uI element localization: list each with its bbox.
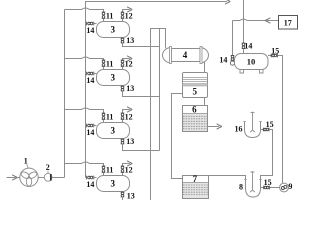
wire: vessel bottom to valve 13 (unit 2): [122, 85, 124, 88]
valve 12 (unit 2): [121, 60, 125, 67]
wire: valve 12 into vessel 3 (unit 1): [122, 19, 124, 22]
heat exchanger 4: [163, 47, 209, 64]
vessel 10: [235, 54, 269, 70]
svg-text:3: 3: [111, 73, 116, 83]
wire: vessel bottom to valve 13 (unit 1): [122, 37, 124, 40]
blower 1: [20, 168, 38, 186]
wire: feed to blower 1: [17, 177, 20, 179]
wire: valve 12 into vessel 3 (unit 4): [122, 173, 124, 176]
wire: feed inlet: [7, 177, 16, 179]
wire: down to valve 14 at vessel 10 left: [232, 21, 234, 56]
stirred tank 8: [244, 171, 262, 197]
vent arrow (unit 2): [127, 56, 132, 61]
svg-text:13: 13: [127, 191, 135, 200]
svg-text:13: 13: [126, 137, 134, 146]
tank 17: [279, 16, 298, 30]
wire: valve 13 drain (unit 4): [122, 197, 124, 200]
pump 9: [280, 183, 289, 192]
svg-text:5: 5: [192, 86, 197, 96]
svg-text:14: 14: [86, 26, 94, 35]
svg-text:11: 11: [106, 11, 114, 20]
valve 15 (tank 8): [264, 186, 270, 190]
wire: filter 2 to trunk A: [52, 177, 65, 179]
valve 15 (vessel 10): [271, 54, 277, 58]
valve 12 (unit 3): [121, 113, 125, 120]
svg-text:12: 12: [125, 11, 133, 20]
svg-text:4: 4: [183, 50, 188, 60]
wire: vent from valve 12 (unit 1): [123, 10, 130, 13]
valve 11 (unit 4): [102, 166, 106, 173]
wire: vent from valve 12 (unit 4): [123, 164, 130, 167]
arrow toward vessel 10 feed: [265, 18, 270, 23]
svg-text:13: 13: [126, 84, 134, 93]
wire: valve 11 into vessel 3 (unit 4): [103, 173, 105, 176]
wire: valve 14 into vessel 10 top: [243, 49, 245, 54]
wire: vessel 10 to valve 15: [268, 55, 271, 57]
wire: valve 12 into vessel 3 (unit 2): [122, 67, 124, 70]
wire: trunk B through valve 14 into vessel (unit 1): [86, 23, 97, 25]
wire: valve 11 into vessel 3 (unit 1): [103, 19, 105, 22]
filter 2: [44, 173, 52, 181]
vessel 3 (unit 1): [97, 22, 130, 38]
wire: exchanger 4 to cooler 5: [204, 62, 206, 73]
wire: valve 13 to trunk C (unit 2): [123, 91, 160, 97]
wire: header from trunk C splitting down-left and to exchanger 4: [151, 29, 166, 201]
separator 6: [183, 106, 208, 132]
vessel 3 (unit 2): [97, 70, 130, 86]
valve 14 (trunk D): [242, 43, 246, 49]
svg-text:3: 3: [111, 25, 116, 35]
vent arrow (unit 4): [127, 161, 132, 166]
svg-text:14: 14: [86, 76, 94, 85]
valve 13 (unit 1): [121, 38, 125, 43]
svg-text:3: 3: [111, 126, 116, 136]
separator 7: [183, 176, 209, 199]
product arrow from 6: [217, 124, 222, 129]
svg-text:1: 1: [24, 157, 28, 166]
svg-text:9: 9: [288, 182, 292, 191]
svg-text:15: 15: [264, 178, 272, 187]
vessel 3 (unit 4): [97, 176, 130, 192]
wire: tank 16 to valve 15: [261, 129, 264, 131]
svg-text:14: 14: [244, 42, 252, 51]
cooler 5: [183, 73, 208, 98]
svg-text:12: 12: [125, 112, 133, 121]
wire: valve 11 into vessel 3 (unit 3): [103, 120, 105, 123]
wire: branch from trunk A to valve 11 (unit 3), hops over trunk B: [65, 108, 104, 113]
svg-text:7: 7: [193, 174, 198, 184]
wire: from tank 17, hops over trunk D: [233, 19, 279, 20]
valve 13 (unit 4): [121, 192, 125, 197]
valve 11 (unit 3): [102, 113, 106, 120]
wire: vessel bottom to valve 13 (unit 3): [122, 138, 124, 141]
wire: trunk D (recycle line from top): [243, 0, 245, 43]
vent arrow at top: [225, 0, 230, 4]
valve 13 (unit 3): [121, 139, 125, 144]
svg-text:11: 11: [106, 165, 114, 174]
svg-text:14: 14: [86, 180, 94, 189]
svg-text:13: 13: [126, 36, 134, 45]
svg-text:6: 6: [192, 104, 197, 114]
valve 13 (unit 2): [121, 86, 125, 91]
wire: trunk B / top vent header: [86, 2, 228, 178]
injector circle at vessel 10 inlet: [230, 61, 234, 65]
vent arrow (unit 3): [127, 107, 132, 112]
wire: trunk A (feed riser): [64, 10, 66, 178]
svg-text:11: 11: [106, 59, 114, 68]
svg-text:15: 15: [271, 46, 279, 55]
wire: valve 15 to pump 9: [270, 187, 280, 189]
stirred tank 16: [243, 112, 262, 138]
wire: valve 11 into vessel 3 (unit 2): [103, 67, 105, 70]
valve 14 (unit 2): [87, 72, 94, 76]
wire: trunk B through valve 14 into vessel (unit 3): [86, 125, 97, 127]
svg-text:11: 11: [106, 112, 114, 121]
valve 14 (unit 3): [87, 124, 94, 128]
svg-text:10: 10: [247, 57, 256, 67]
vessel 10 legs: [240, 70, 263, 74]
wire: vent from valve 12 (unit 2): [123, 59, 130, 61]
wire: trunk C (valve-13 collector): [159, 29, 161, 151]
svg-text:12: 12: [125, 59, 133, 68]
valve 14 (unit 1): [87, 22, 94, 26]
wire: tank 8 to valve 15: [261, 187, 264, 189]
svg-text:17: 17: [284, 18, 292, 27]
wire: valve 15 down right side to pump 9: [278, 56, 283, 184]
valve 14 (unit 4): [87, 176, 94, 180]
wire: trunk B through valve 14 into vessel (unit 2): [86, 73, 97, 75]
valve 11 (unit 1): [102, 12, 106, 19]
wire: valve 15 of tank 16 down to tank 8 top: [261, 130, 273, 180]
svg-text:3: 3: [111, 179, 116, 189]
valve 12 (unit 4): [121, 166, 125, 173]
wire: cooler 5 to separator 6: [204, 98, 206, 106]
leader line of label 2: [47, 171, 49, 174]
wire: unit 7 outlet to tank 8: [209, 176, 246, 180]
vent arrow (unit 1): [127, 7, 132, 12]
vessel 3 (unit 3): [97, 123, 130, 139]
wire: branch from trunk A to valve 11 (unit 1), hops over trunk B: [65, 8, 104, 12]
svg-text:14: 14: [219, 56, 227, 65]
valve 14 (vessel 10 left): [231, 55, 235, 60]
svg-text:2: 2: [46, 163, 50, 172]
wire: branch from trunk A to valve 11 (unit 4), hops over trunk B: [65, 162, 104, 166]
wire: cooler 5 side outlet down to unit 7: [172, 94, 183, 179]
wire: valve 12 into vessel 3 (unit 3): [122, 120, 124, 123]
wire: trunk B through valve 14 into vessel (unit 4): [86, 177, 97, 179]
wire: vent from valve 12 (unit 3): [123, 110, 130, 114]
svg-text:14: 14: [86, 128, 94, 137]
leader line of label 1: [27, 164, 29, 168]
svg-text:12: 12: [125, 165, 133, 174]
wire: valve 13 to trunk C (unit 3): [123, 144, 160, 151]
svg-text:8: 8: [239, 183, 243, 192]
valve 15 (tank 16): [263, 128, 269, 132]
svg-text:16: 16: [235, 125, 243, 134]
wire: branch from trunk A to valve 11 (unit 2), hops over trunk B: [65, 57, 104, 60]
valve 11 (unit 2): [102, 60, 106, 67]
valve 12 (unit 1): [121, 12, 125, 19]
wire: valve 13 to trunk C (unit 1): [123, 43, 160, 47]
svg-text:15: 15: [266, 120, 274, 129]
wire: separator 6 product outlet: [208, 126, 220, 128]
feed arrow: [12, 175, 17, 180]
wire: vessel bottom to valve 13 (unit 4): [122, 191, 124, 194]
wire: blower 1 to filter 2: [38, 177, 44, 179]
